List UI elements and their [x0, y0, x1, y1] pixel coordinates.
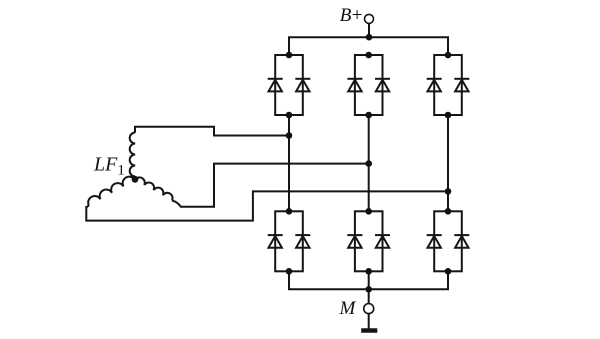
svg-text:LF1: LF1 [93, 154, 125, 179]
svg-text:M: M [339, 298, 357, 319]
svg-text:B+: B+ [340, 5, 364, 26]
